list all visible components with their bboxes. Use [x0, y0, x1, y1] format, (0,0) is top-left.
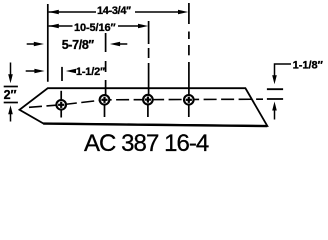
hole 2	[100, 95, 110, 117]
svg-text:1-1/2′′: 1-1/2′′	[76, 66, 106, 78]
svg-text:1-1/8′′: 1-1/8′′	[293, 59, 324, 71]
svg-text:10-5/16′′: 10-5/16′′	[74, 22, 116, 34]
svg-text:14-3/4′′: 14-3/4′′	[97, 5, 131, 17]
wire: hole 1 top tick	[60, 91, 62, 100]
node D: dimension 1-1/2 row	[26, 70, 37, 72]
hole 3	[143, 95, 153, 117]
node E: left dimension 2 inch	[10, 63, 12, 78]
svg-text:AC 387 16-4: AC 387 16-4	[84, 130, 209, 157]
svg-text:2′′: 2′′	[4, 88, 17, 102]
centerline through holes (dashed)	[29, 99, 263, 107]
wire: extension line of 5-7/8 down to hole 2	[105, 33, 107, 95]
hole 4	[184, 95, 194, 117]
node A: dimension 14-3/4 row	[49, 11, 180, 13]
node B: dimension 10-5/16 row	[49, 25, 143, 27]
hole 1	[56, 100, 66, 118]
wire: bottom edge overdraw	[43, 124, 267, 127]
wire: right extension line of 10-5/16 down to hole 3	[148, 21, 150, 95]
blade outline	[20, 88, 268, 126]
wire: main left extension line	[47, 4, 49, 82]
wire: right extension line of 14-3/4 down to hole 4	[188, 3, 190, 95]
svg-text:5-7/8′′: 5-7/8′′	[62, 38, 94, 52]
wire: extension tick at 1-1/2 over hole 1	[61, 67, 63, 81]
node C: dimension 5-7/8 row	[27, 43, 37, 45]
